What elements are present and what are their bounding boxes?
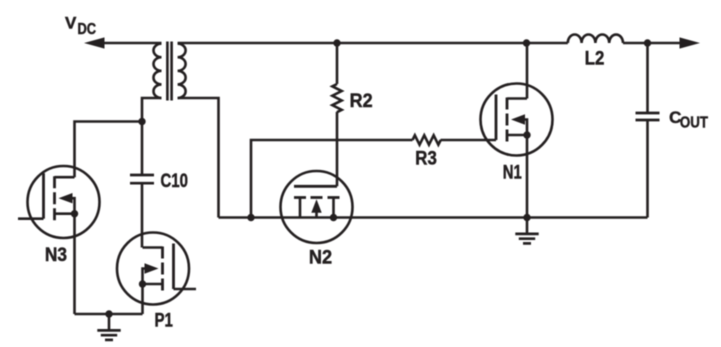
wire: top bus to N1 drain [526, 43, 529, 99]
transistor P1 (mirrored) [117, 233, 189, 305]
wire: top bus to R2 [336, 43, 339, 84]
svg-text:C10: C10 [161, 171, 188, 192]
transformer T1 core [167, 42, 171, 101]
wire: P1 gate stub [174, 288, 197, 291]
transistor N2 (rotated orientation, drawn explicitly) [281, 171, 353, 243]
transistor N1 [481, 84, 553, 156]
wire: top bus left arrowhead toward VDC [84, 37, 105, 48]
wire: N3 source down to bottom rail [73, 214, 76, 314]
wire: node A to N3 drain [75, 122, 143, 178]
capacitor COUT [636, 113, 660, 120]
wire: R3 to N1 gate [441, 139, 497, 142]
svg-text:N1: N1 [503, 163, 522, 184]
svg-text:R3: R3 [415, 149, 437, 170]
wire: C10 to P1 drain [141, 183, 144, 247]
svg-text:P1: P1 [155, 311, 174, 332]
node OUT junction dot [644, 39, 651, 46]
wire: L2 to output arrow [623, 42, 680, 45]
svg-text:L2: L2 [585, 49, 605, 70]
node A junction dot [138, 118, 145, 125]
svg-text:N3: N3 [45, 245, 67, 266]
wire: COUT to mid rail [646, 120, 649, 218]
svg-text:R2: R2 [350, 91, 373, 112]
wire: bottom rail N3 source to P1 source [75, 313, 143, 316]
wire: secondary bottom to mid rail [178, 98, 219, 218]
transformer T1 secondary winding [178, 44, 186, 98]
ground right [515, 218, 538, 244]
wire: node B up and right to R3 [251, 140, 413, 218]
svg-text:DC: DC [78, 21, 97, 38]
wire: P1 source down to bottom rail [141, 284, 144, 314]
inductor L2 [568, 35, 623, 44]
node B junction dot on mid rail [247, 214, 254, 221]
node F junction dot (N1 source on mid rail) [523, 214, 530, 221]
wire: N1 source to mid rail [526, 135, 529, 218]
capacitor C10 [130, 175, 154, 183]
transformer T1 primary winding [154, 44, 162, 98]
wire: OUT node down to COUT [646, 43, 649, 113]
wire: mid rail [219, 216, 648, 219]
svg-text:N2: N2 [309, 248, 332, 269]
wire: top bus from transformer secondary to L2 [178, 42, 568, 45]
wire: R2 to N2 gate [336, 112, 339, 186]
wire: node A down to C10 [141, 122, 144, 176]
wire: primary bottom to node A [142, 98, 162, 122]
wire: N3 gate stub [18, 217, 44, 220]
node C junction dot on top bus (R2 tap) [333, 39, 340, 46]
resistor R2 [332, 84, 341, 112]
output arrowhead [680, 37, 701, 48]
resistor R3 [413, 135, 441, 144]
ground left [97, 314, 120, 340]
node D junction dot (N2 source/body to mid rail) [330, 214, 337, 221]
wire: top bus from arrow to transformer primary [103, 42, 162, 45]
node G1 junction dot [105, 310, 112, 317]
svg-text:OUT: OUT [680, 115, 709, 132]
svg-text:V: V [65, 14, 77, 33]
node E junction dot (N1 drain on top bus) [523, 39, 530, 46]
transistor N3 [28, 166, 100, 238]
